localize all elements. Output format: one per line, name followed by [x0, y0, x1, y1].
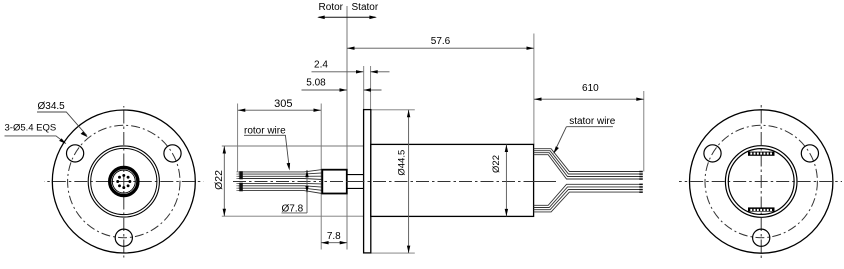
svg-text:stator wire: stator wire	[569, 116, 616, 127]
vertical centerline	[123, 106, 125, 258]
svg-text:Ø22: Ø22	[491, 155, 502, 173]
svg-text:Rotor: Rotor	[319, 2, 344, 13]
stator wires lower	[534, 184, 640, 212]
svg-text:610: 610	[582, 83, 599, 94]
bolt hole 150deg	[704, 145, 721, 162]
svg-text:7.8: 7.8	[327, 231, 341, 242]
extension line body right x=534	[533, 34, 535, 145]
extension line x=321	[320, 104, 322, 250]
dim Ø7.8	[306, 170, 308, 213]
horizontal centerline	[44, 181, 204, 183]
bolt circle	[705, 125, 817, 237]
stator wire end ticks	[639, 171, 643, 193]
stator body	[371, 144, 534, 216]
horizontal centerline	[679, 181, 842, 183]
centerline through shaft	[324, 181, 556, 183]
svg-text:Ø22: Ø22	[213, 170, 225, 190]
connector knurled ring	[110, 167, 138, 195]
bolt hole 30deg	[164, 145, 181, 162]
svg-text:5.08: 5.08	[306, 77, 326, 88]
bore outer circle	[725, 146, 797, 218]
flange side view	[364, 110, 371, 253]
centerline	[233, 181, 556, 183]
svg-text:57.6: 57.6	[431, 36, 451, 47]
flange outer circle	[52, 110, 195, 253]
bolt hole 270deg	[753, 229, 770, 246]
svg-text:Ø7.8: Ø7.8	[282, 204, 304, 215]
svg-text:Ø44.5: Ø44.5	[397, 150, 408, 176]
bolt hole 30deg	[801, 145, 818, 162]
rotor wires	[238, 170, 322, 194]
flange outer circle	[690, 110, 833, 253]
vertical centerline	[760, 104, 762, 259]
svg-text:305: 305	[274, 98, 292, 110]
extension lines flange faces above	[363, 66, 365, 110]
extension line rotor/stator divider x=347	[346, 6, 348, 250]
connector boss outer circle	[88, 146, 159, 217]
rotor/stator double arrow	[319, 16, 376, 18]
bolt hole 270deg	[115, 229, 132, 246]
rotor wire end stubs	[236, 172, 239, 191]
top brush strip	[748, 152, 775, 156]
connector pins	[116, 174, 131, 189]
svg-text:Ø34.5: Ø34.5	[38, 101, 66, 112]
extension lines Ø44.5	[371, 109, 415, 111]
connector boss inner circle	[91, 148, 157, 214]
bore inner circle	[728, 149, 794, 215]
svg-text:3-Ø5.4 EQS: 3-Ø5.4 EQS	[5, 123, 57, 134]
leader 3-Ø5.4 EQS	[5, 136, 66, 143]
stator wires upper	[534, 149, 640, 179]
rotor wire end caps	[239, 171, 243, 191]
bottom brush strip	[748, 207, 775, 211]
connector inner circle	[112, 170, 135, 193]
bolt hole 150deg	[67, 145, 84, 162]
svg-text:Stator: Stator	[352, 2, 379, 13]
extension lines Ø22 left	[222, 145, 364, 147]
bolt circle Ø34.5	[68, 125, 180, 237]
leader Ø34.5	[37, 112, 87, 136]
boss between shaft and flange	[347, 174, 364, 176]
rotor shaft	[322, 170, 347, 194]
extension line x=237.6 wire end	[237, 104, 239, 173]
extension line wire right end x=643.8	[643, 91, 645, 172]
svg-text:2.4: 2.4	[314, 59, 328, 70]
